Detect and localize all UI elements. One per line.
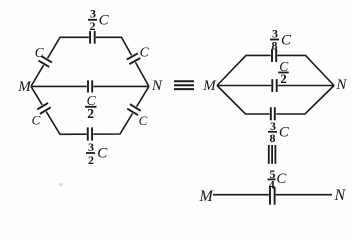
wire: bottom circuit M to N bbox=[213, 194, 332, 196]
svg-text:C: C bbox=[279, 124, 290, 140]
capacitor 3/2 C bottom middle bbox=[87, 127, 94, 140]
svg-text:C: C bbox=[32, 112, 41, 127]
svg-text:8: 8 bbox=[272, 39, 278, 53]
svg-text:M: M bbox=[17, 79, 32, 95]
label 5/4 C for bottom circuit capacitor bbox=[268, 167, 288, 191]
wire: middle circuit middle branch M to N bbox=[217, 85, 334, 87]
capacitor C upper-left diagonal bbox=[38, 55, 53, 68]
capacitor C/2 middle branch bbox=[87, 80, 94, 92]
svg-text:N: N bbox=[151, 78, 163, 94]
label C/2 for middle capacitor of middle circuit bbox=[278, 59, 289, 86]
faint scan speck bbox=[59, 183, 63, 186]
wire: left circuit middle branch M to N bbox=[31, 85, 149, 87]
capacitor C lower-right diagonal bbox=[127, 103, 142, 116]
svg-text:8: 8 bbox=[270, 131, 276, 145]
svg-text:C: C bbox=[97, 146, 108, 162]
wire: left circuit bottom branch M to N via bottom corners bbox=[31, 86, 149, 134]
equivalence symbol horizontal triple bar bbox=[174, 81, 194, 89]
wire: left circuit top branch M to N via top corners bbox=[31, 37, 149, 86]
capacitor C/2 middle of middle circuit bbox=[271, 79, 278, 92]
equivalence symbol vertical triple bar bbox=[269, 145, 276, 164]
capacitor 3/2 C top middle bbox=[89, 31, 96, 44]
capacitor C lower-left diagonal bbox=[37, 102, 52, 115]
capacitor C upper-right diagonal bbox=[126, 52, 141, 65]
svg-text:C: C bbox=[35, 45, 45, 60]
label 3/2 C for bottom capacitor bbox=[86, 140, 108, 167]
wire: middle circuit top branch M to N via top corners bbox=[217, 55, 334, 85]
capacitor 3/8 C top of middle circuit bbox=[271, 49, 278, 62]
svg-text:C: C bbox=[276, 171, 287, 187]
svg-text:C: C bbox=[281, 32, 292, 48]
svg-text:2: 2 bbox=[90, 19, 96, 33]
capacitor 3/8 C bottom of middle circuit bbox=[269, 107, 276, 120]
svg-text:4: 4 bbox=[269, 177, 275, 191]
svg-text:M: M bbox=[202, 78, 217, 94]
svg-text:M: M bbox=[199, 188, 215, 205]
label 3/8 C for top capacitor of middle circuit bbox=[270, 27, 292, 53]
wire: middle circuit bottom branch M to N via bottom corners bbox=[217, 86, 334, 115]
svg-text:C: C bbox=[139, 113, 148, 128]
svg-text:C: C bbox=[99, 12, 110, 28]
svg-text:N: N bbox=[334, 187, 347, 204]
label C/2 for middle capacitor bbox=[85, 93, 97, 121]
label 3/2 C for top capacitor bbox=[88, 7, 110, 34]
svg-text:C: C bbox=[140, 44, 150, 59]
svg-text:N: N bbox=[335, 77, 347, 93]
svg-text:2: 2 bbox=[280, 71, 287, 86]
svg-text:2: 2 bbox=[87, 106, 94, 121]
capacitor 5/4 C bottom circuit bbox=[269, 187, 276, 205]
label 3/8 C for bottom capacitor of middle circuit bbox=[268, 119, 290, 145]
svg-text:2: 2 bbox=[88, 153, 94, 167]
